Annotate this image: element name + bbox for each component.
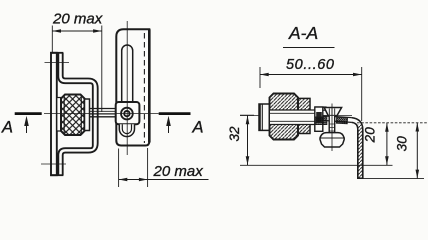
svg-text:A: A [1, 119, 13, 137]
svg-text:30: 30 [395, 136, 410, 152]
top end cap of plate and strip [50, 52, 63, 54]
bracket bend outer edge and leg [352, 118, 363, 179]
svg-text:20 max: 20 max [153, 163, 204, 180]
dimension 20max top: extension line left [51, 26, 53, 53]
bottom end cap of plate and strip [50, 174, 63, 176]
hinge block on plate [116, 102, 140, 124]
svg-text:A-A: A-A [288, 23, 318, 43]
threaded shaft (left view) [90, 108, 116, 110]
knob collar [85, 99, 90, 131]
spring bracket strip, outer edge [58, 53, 93, 175]
leg outline repaint [358, 130, 363, 179]
svg-text:20: 20 [363, 127, 378, 144]
bracket flange bottom line [323, 120, 352, 122]
screw end boss [259, 104, 270, 130]
mounting plate (flat bar, edge view) [51, 53, 57, 175]
trunnion fork below hinge block [119, 124, 134, 136]
dimension 20max top: right arrowhead [93, 29, 102, 33]
svg-text:50...60: 50...60 [286, 57, 335, 73]
dimension 20max bottom: left arrowhead [119, 178, 128, 182]
right viewing arrow [168, 118, 170, 133]
underline of title [283, 47, 335, 49]
bracket flange top line [323, 116, 352, 118]
dimension 32: top extension line [240, 114, 254, 116]
lower rivet centerline [41, 163, 66, 165]
countersunk screw head [324, 108, 341, 116]
dimension 20max top: extension line right [101, 26, 103, 113]
svg-text:20 max: 20 max [52, 11, 103, 28]
dimension 20max bottom: extension line left [118, 149, 120, 188]
left viewing arrow [26, 118, 28, 133]
dimension 20max bottom: extension line right [147, 148, 149, 187]
pivot pin outer circle [121, 108, 133, 120]
bottom extension for 30 [363, 178, 424, 180]
flange sectioned right piece [336, 117, 347, 124]
dimension 50...60: extension line right [361, 67, 363, 121]
plate right edge emphasis [148, 29, 151, 142]
spring bracket strip, inner edge [63, 53, 98, 175]
inner arc of fork [122, 124, 131, 133]
round nut under bracket [320, 133, 344, 147]
top extension line for 20 and 30 [357, 122, 427, 124]
nut collar (sectioned) [298, 98, 310, 133]
dimension 20: dimension line [386, 123, 388, 165]
boss chamfer line [259, 104, 261, 131]
knurled knob body [61, 95, 85, 136]
upper rivet centerline [45, 62, 70, 64]
section plane line, right part [159, 112, 191, 115]
leg hatching [358, 125, 363, 179]
vertical centerline of slot and pin [126, 21, 128, 155]
dimension 20max top: dimension line [52, 30, 102, 32]
dimension 20max top: left arrowhead [52, 29, 61, 33]
section plane line, left part [15, 112, 42, 115]
dimension 32: dimension line [247, 116, 249, 166]
dimension 20max bottom: right arrowhead [139, 178, 148, 182]
trunnion sectioned core [316, 112, 322, 123]
bolt shank [329, 116, 335, 135]
svg-text:A: A [192, 119, 204, 137]
flange sectioned left piece [315, 117, 327, 125]
threaded hole band / screw shaft [270, 110, 315, 125]
hinge top bar [316, 107, 327, 110]
trunnion block [315, 107, 323, 131]
horizontal axis centerline (section) [240, 115, 352, 117]
mating slotted plate [116, 29, 149, 145]
dimension 20max bottom: dimension line with leader [119, 179, 209, 181]
dimension 50...60: dimension line [260, 74, 362, 76]
pivot pin inner circle [124, 111, 129, 116]
hidden edge (dashed) of plate [143, 33, 145, 143]
slot in plate [122, 45, 133, 102]
dimension 50...60: extension line left [259, 67, 261, 88]
knurled nut head (sectioned) [270, 94, 299, 140]
dimension 30: dimension line [416, 123, 418, 179]
common baseline extension (32 / 20 bottoms) [240, 164, 393, 166]
bolt vertical centerline [331, 104, 333, 152]
knob chamfer facet lines [63, 95, 65, 136]
svg-text:32: 32 [227, 126, 242, 142]
washer behind knob [57, 98, 61, 132]
horizontal axis centerline (left view) [44, 113, 159, 115]
